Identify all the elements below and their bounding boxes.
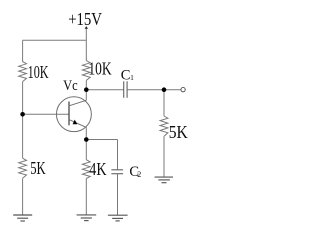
resistor R4 5K (right)	[160, 116, 168, 136]
svg-text:Vc: Vc	[63, 78, 78, 94]
resistor R1 10K (left)	[19, 62, 27, 82]
node emitter dot	[84, 137, 89, 142]
ground (C2)	[108, 215, 128, 221]
ground (right 5K)	[155, 177, 173, 183]
wire output node down	[163, 90, 165, 116]
svg-text:4K: 4K	[89, 159, 106, 179]
wire left branch upper	[22, 40, 24, 62]
svg-text:+15V: +15V	[68, 9, 102, 29]
node output dot	[162, 87, 167, 92]
transistor Q1 emitter lead	[69, 120, 86, 128]
wire C2 riser	[117, 140, 119, 170]
resistor R2 5K (left)	[19, 158, 27, 178]
svg-text:5K: 5K	[169, 122, 188, 142]
wire top rail	[23, 39, 87, 41]
wire left branch to ground	[22, 178, 24, 215]
ground (emitter 4K)	[77, 215, 97, 221]
wire C1 to output node	[127, 89, 181, 91]
output terminal open circle	[181, 87, 185, 91]
capacitor C2 plates	[111, 170, 123, 174]
wire right 5K to ground	[163, 136, 165, 177]
wire supply riser	[85, 28, 87, 61]
supply arrow +15V	[85, 26, 88, 29]
transistor Q1 circle	[56, 97, 91, 132]
wire left branch lower	[22, 114, 24, 158]
wire emitter down	[85, 127, 87, 139]
node Vc dot	[84, 87, 89, 92]
wire Vc node to collector	[85, 90, 87, 101]
capacitor C1 plates	[124, 81, 127, 98]
resistor R3 10K (right)	[82, 61, 90, 81]
svg-text:10K: 10K	[88, 59, 111, 79]
node base dot	[20, 112, 25, 117]
transistor Q1 emitter arrow	[73, 120, 78, 125]
transistor Q1 base bar	[68, 102, 70, 126]
wire emitter node to 4K	[85, 140, 87, 160]
resistor R5 4K	[82, 160, 90, 179]
ground (left)	[13, 215, 32, 221]
wire left branch mid	[22, 82, 24, 115]
wire emitter node to C2	[86, 139, 117, 141]
wire 4K to ground	[85, 179, 87, 215]
wire C2 to ground	[117, 174, 119, 216]
wire Vc to C1	[86, 89, 123, 91]
svg-text:10K: 10K	[28, 62, 49, 82]
svg-text:5K: 5K	[30, 158, 45, 178]
transistor Q1 collector lead	[69, 100, 86, 106]
wire base	[23, 113, 69, 115]
wire resistor to Vc node	[85, 80, 87, 89]
